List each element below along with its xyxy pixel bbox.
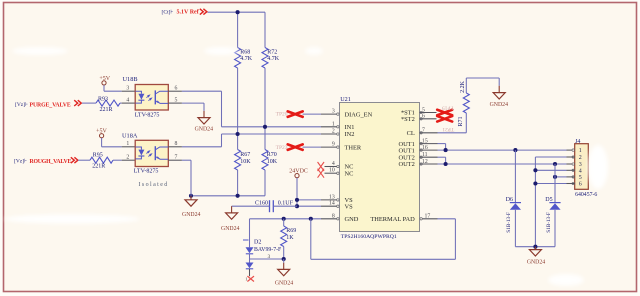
svg-text:DIAG_EN: DIAG_EN: [345, 111, 373, 118]
svg-text:R95: R95: [93, 152, 103, 158]
svg-text:TP21: TP21: [442, 126, 454, 132]
svg-text:PURGE_VALVE: PURGE_VALVE: [30, 102, 71, 108]
svg-text:10: 10: [329, 168, 335, 174]
svg-text:4: 4: [126, 98, 129, 104]
svg-text:R68: R68: [240, 49, 250, 55]
svg-text:IN2: IN2: [345, 131, 355, 138]
svg-text:GND24: GND24: [527, 260, 545, 266]
svg-text:4.7K: 4.7K: [267, 56, 280, 62]
svg-text:GND24: GND24: [275, 281, 293, 287]
svg-text:5.1V Ref: 5.1V Ref: [177, 10, 200, 16]
svg-text:R93: R93: [98, 97, 108, 103]
svg-text:D2: D2: [254, 240, 261, 246]
svg-text:C160: C160: [255, 201, 268, 207]
svg-text:U21: U21: [340, 96, 351, 103]
svg-text:GND24: GND24: [490, 102, 508, 108]
svg-text:TPS2H160AQPWPRQ1: TPS2H160AQPWPRQ1: [341, 234, 397, 240]
svg-text:1: 1: [579, 148, 582, 154]
svg-text:D5: D5: [545, 197, 552, 203]
svg-text:BAV99-7-F: BAV99-7-F: [254, 247, 282, 253]
svg-text:4.7K: 4.7K: [240, 56, 253, 62]
svg-text:[Ct]⊦: [Ct]⊦: [162, 8, 174, 15]
svg-text:R67: R67: [240, 152, 250, 158]
svg-text:GND24: GND24: [221, 226, 239, 232]
svg-text:D6: D6: [506, 197, 513, 203]
svg-text:[Vz]⊦: [Vz]⊦: [15, 101, 28, 108]
svg-text:GND24: GND24: [182, 212, 200, 218]
svg-text:1: 1: [332, 121, 335, 127]
svg-text:221R: 221R: [92, 163, 105, 169]
svg-text:R72: R72: [267, 49, 277, 55]
svg-text:GND24: GND24: [195, 126, 213, 132]
svg-text:10K: 10K: [267, 159, 278, 165]
svg-text:6: 6: [579, 182, 582, 188]
svg-text:8: 8: [332, 213, 335, 219]
svg-text:OUT2: OUT2: [398, 161, 414, 168]
svg-text:LTV-8275: LTV-8275: [135, 112, 160, 118]
svg-text:THER: THER: [345, 144, 362, 151]
svg-text:17: 17: [425, 214, 431, 220]
svg-text:THERMAL PAD: THERMAL PAD: [370, 216, 415, 223]
svg-text:2.2K: 2.2K: [460, 80, 466, 93]
svg-text:1: 1: [126, 141, 129, 147]
svg-text:2: 2: [332, 129, 335, 135]
svg-text:U18A: U18A: [122, 132, 138, 139]
svg-text:R69: R69: [286, 228, 296, 234]
svg-text:S1B-13-F: S1B-13-F: [546, 212, 552, 233]
svg-text:CL: CL: [407, 130, 415, 137]
svg-text:Isolated: Isolated: [139, 182, 169, 188]
svg-text:OUT1: OUT1: [398, 147, 414, 154]
svg-text:10K: 10K: [240, 159, 251, 165]
svg-text:S1B-13-F: S1B-13-F: [506, 212, 512, 233]
svg-text:4: 4: [579, 168, 582, 174]
svg-text:LTV-8275: LTV-8275: [134, 168, 159, 174]
svg-text:4: 4: [332, 161, 335, 167]
svg-text:3: 3: [332, 109, 335, 115]
svg-text:GND: GND: [345, 216, 359, 223]
svg-text:1K: 1K: [286, 235, 294, 241]
svg-text:U18B: U18B: [123, 76, 138, 83]
svg-text:2: 2: [579, 155, 582, 161]
svg-text:9: 9: [332, 142, 335, 148]
svg-text:5: 5: [579, 175, 582, 181]
svg-text:3: 3: [579, 162, 582, 168]
svg-text:R70: R70: [267, 152, 277, 158]
svg-text:221R: 221R: [99, 107, 112, 113]
svg-text:TP20: TP20: [276, 112, 288, 118]
svg-text:[Vz]⊦: [Vz]⊦: [14, 158, 27, 165]
svg-text:R71: R71: [458, 116, 464, 126]
svg-text:2: 2: [126, 155, 129, 161]
svg-text:0.1UF: 0.1UF: [278, 201, 294, 207]
svg-text:ROUGH_VALVE: ROUGH_VALVE: [30, 159, 72, 165]
svg-text:3: 3: [268, 254, 271, 260]
svg-text:VS: VS: [345, 203, 354, 210]
svg-text:J4: J4: [575, 139, 580, 145]
svg-text:14: 14: [329, 201, 335, 207]
svg-text:NC: NC: [345, 170, 354, 177]
svg-text:3: 3: [126, 86, 129, 92]
svg-text:*ST2: *ST2: [401, 116, 415, 123]
svg-text:TP23: TP23: [276, 145, 288, 151]
svg-text:13: 13: [329, 194, 335, 200]
svg-text:640457-6: 640457-6: [575, 192, 597, 198]
svg-text:IN1: IN1: [345, 124, 355, 131]
svg-text:TP19: TP19: [442, 104, 454, 110]
